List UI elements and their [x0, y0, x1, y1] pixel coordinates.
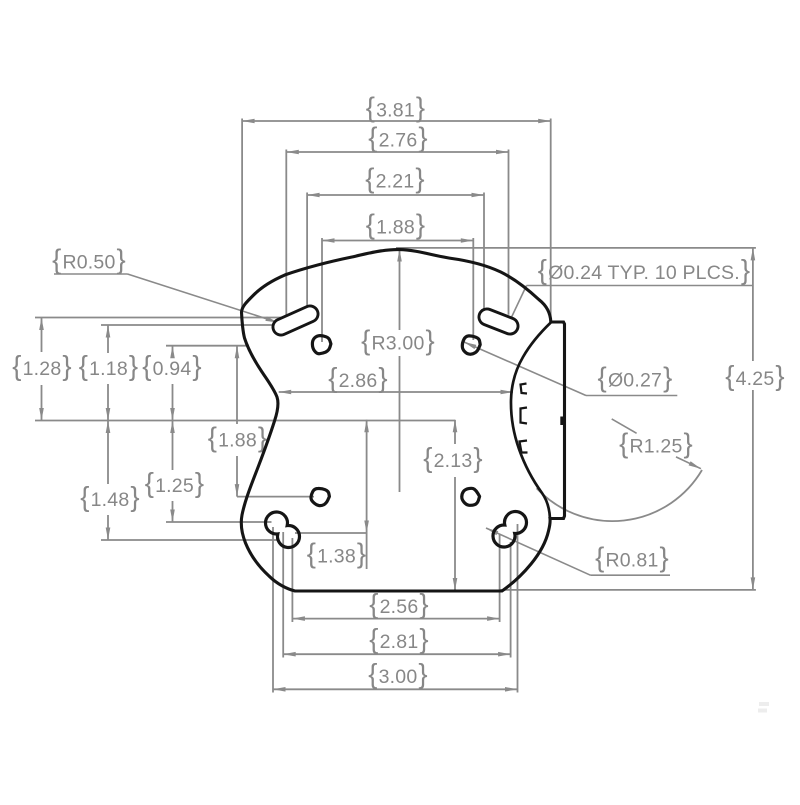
extension line (1.88) left [321, 238, 323, 342]
part outline [241, 250, 564, 591]
slot hole top-left [281, 314, 310, 327]
dimension (3.81) overall top width [242, 120, 551, 122]
round hole top-left [312, 336, 331, 354]
extension line (2.56) left [291, 538, 293, 622]
dimension (2.56) bottom holes inner [292, 618, 499, 620]
extension line 1.25 bottom [166, 521, 272, 523]
keyhole hole bottom-left [265, 512, 299, 548]
dimension (1.88) top hole spacing [322, 240, 473, 242]
dimension (2.81) bottom holes center [283, 653, 510, 655]
dimension {1.28} left upper [41, 318, 43, 353]
dimension (3.00) bottom holes outer [273, 688, 518, 690]
extension line (2.81) left [282, 532, 284, 658]
right bend line (waist) [511, 323, 551, 519]
round hole mid-left [311, 488, 329, 505]
shared extension line y420 [35, 420, 455, 422]
extension line (2.76) left [285, 150, 287, 318]
round hole top-right [462, 336, 480, 354]
slot hole top-right [487, 317, 510, 326]
extension line 1.38v to keyhole [295, 532, 367, 534]
dimension {4.25} overall height [752, 248, 754, 361]
bend relief notch 2 [521, 408, 528, 424]
extension line (2.21) left [306, 193, 308, 314]
dimension (2.21) slot inner spacing [307, 194, 484, 196]
dimension R1.25 arc and leader [537, 470, 702, 521]
extension line (2.21) right [483, 193, 485, 314]
extension line 1.18 top [101, 324, 276, 326]
extension line (2.76) right [508, 150, 510, 315]
tab slot tick [560, 417, 564, 426]
leader R0.81 [590, 574, 670, 576]
dimension {1.88} vertical to mid hole [236, 346, 238, 424]
dimension {0.94} left upper [172, 346, 174, 353]
dimension {2.13} vertical to bottom [454, 420, 456, 444]
extension line (3.00) right [517, 524, 519, 693]
extension line (2.56) right [499, 534, 501, 622]
dimension {1.48} left lower [107, 421, 109, 485]
extension line 4.25 bottom [500, 589, 756, 591]
extension line 4.25 top [396, 247, 756, 249]
extension line (2.81) right [510, 542, 512, 658]
extension line (3.00) left [272, 527, 274, 693]
extension line 1.88v to mid hole [237, 496, 314, 498]
round hole mid-right [462, 488, 480, 505]
dimension {1.18} left upper [107, 325, 109, 353]
dimension 2.86 between waists [279, 391, 513, 393]
dimension {1.25} left lower [172, 421, 174, 471]
dimension (2.76) slot outer spacing [286, 151, 508, 153]
extension line (3.81) right [550, 119, 552, 322]
leader and note diameter 0.24 TYP 10 PLCS [527, 285, 754, 287]
R3.00 center line dimension [399, 250, 401, 330]
dimension {1.38} vertical to keyhole [366, 420, 368, 569]
extension line 0.94 top [166, 345, 249, 347]
extension line (1.88) right [472, 238, 474, 340]
extension line (3.81) left [241, 119, 243, 311]
extension line 1.48 bottom [101, 539, 278, 541]
watermark [759, 702, 769, 706]
bend relief notch 1 [521, 384, 528, 394]
leader diameter 0.27 [586, 395, 677, 397]
extension line 1.28 top [35, 317, 284, 319]
bend relief notch 3 [520, 441, 528, 453]
leader R0.50 [54, 273, 128, 275]
keyhole hole bottom-right [493, 511, 526, 547]
